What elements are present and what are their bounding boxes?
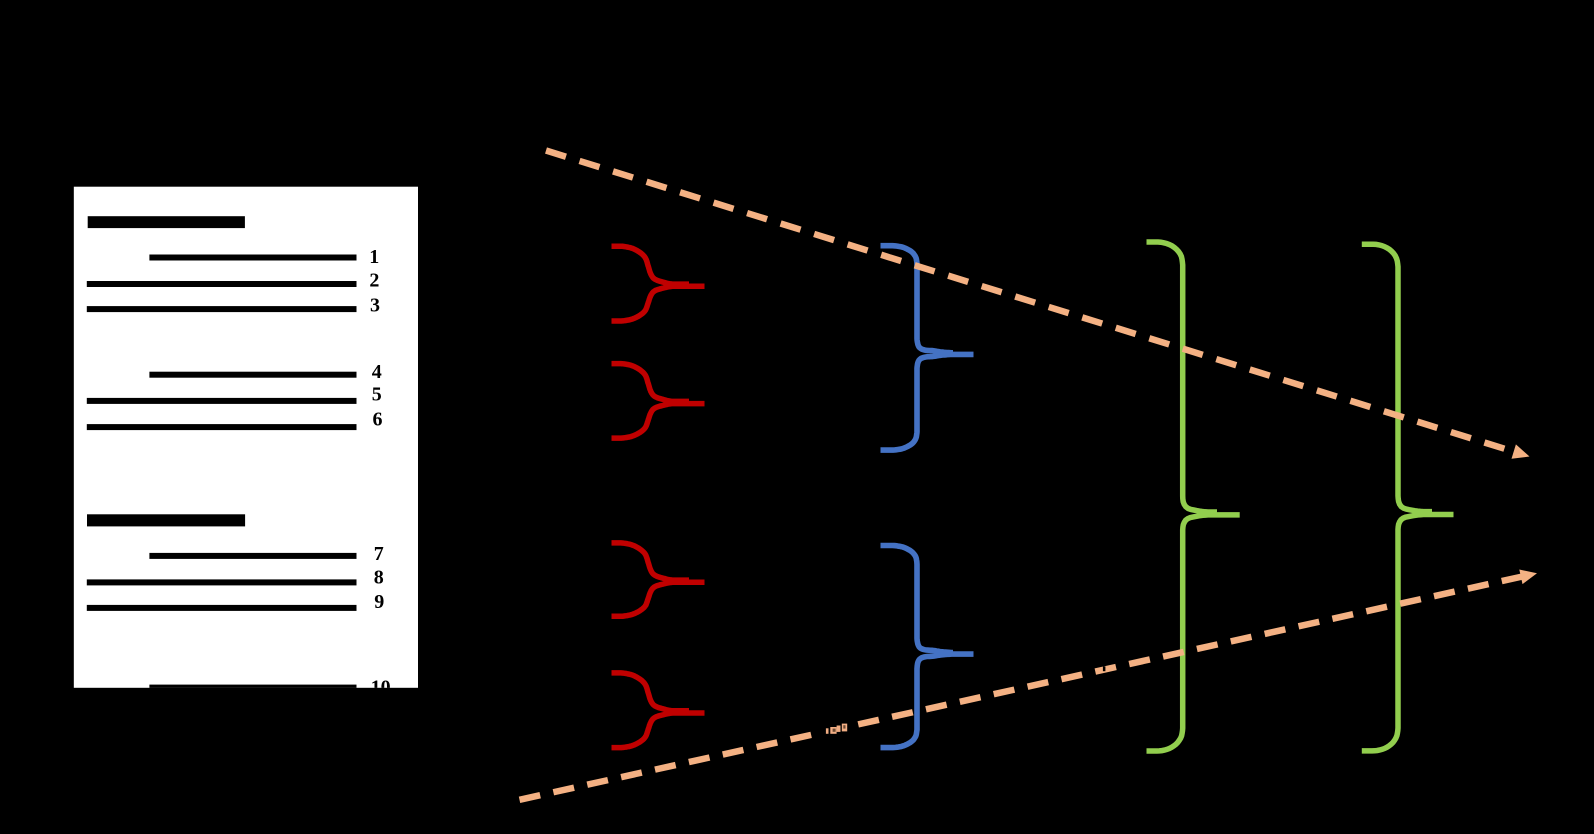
hidden label bite on dash near green brace <box>1103 666 1106 671</box>
heading bar 2 <box>87 514 245 526</box>
blue merge brace 1 <box>881 246 974 450</box>
dashed arrow 2 (lower, up-right) <box>520 570 1538 800</box>
line 1 <box>149 255 356 261</box>
green merge brace 2 <box>1362 244 1454 751</box>
line 9 <box>87 605 357 611</box>
blue merge brace 2 <box>881 546 974 748</box>
line 6 <box>87 424 357 430</box>
svg-text:1: 1 <box>369 246 379 268</box>
svg-text:3: 3 <box>370 295 380 317</box>
dashed arrow 1 (upper, down-right) <box>546 151 1530 459</box>
line 7 <box>149 553 356 559</box>
line 8 <box>87 579 357 585</box>
line 4 <box>149 372 356 378</box>
red merge brace 4 (group 4) <box>612 673 705 748</box>
svg-text:7: 7 <box>374 543 384 565</box>
svg-text:9: 9 <box>374 591 384 613</box>
svg-text:5: 5 <box>372 383 382 405</box>
line 10 <box>149 685 356 691</box>
red merge brace 2 (group 2) <box>612 364 705 439</box>
document page <box>74 187 418 699</box>
line 2 <box>87 281 357 287</box>
green merge brace 1 <box>1147 242 1240 751</box>
svg-text:8: 8 <box>374 567 384 589</box>
red merge brace 3 (group 3) <box>612 543 705 616</box>
line 5 <box>87 398 357 404</box>
red merge brace 1 (group 1) <box>612 246 705 321</box>
line 3 <box>87 306 357 312</box>
svg-text:4: 4 <box>372 361 382 383</box>
svg-text:6: 6 <box>373 408 383 430</box>
svg-text:2: 2 <box>369 269 379 291</box>
hidden black label fragment over lower arrow <box>814 712 857 737</box>
heading bar 1 <box>88 216 245 228</box>
